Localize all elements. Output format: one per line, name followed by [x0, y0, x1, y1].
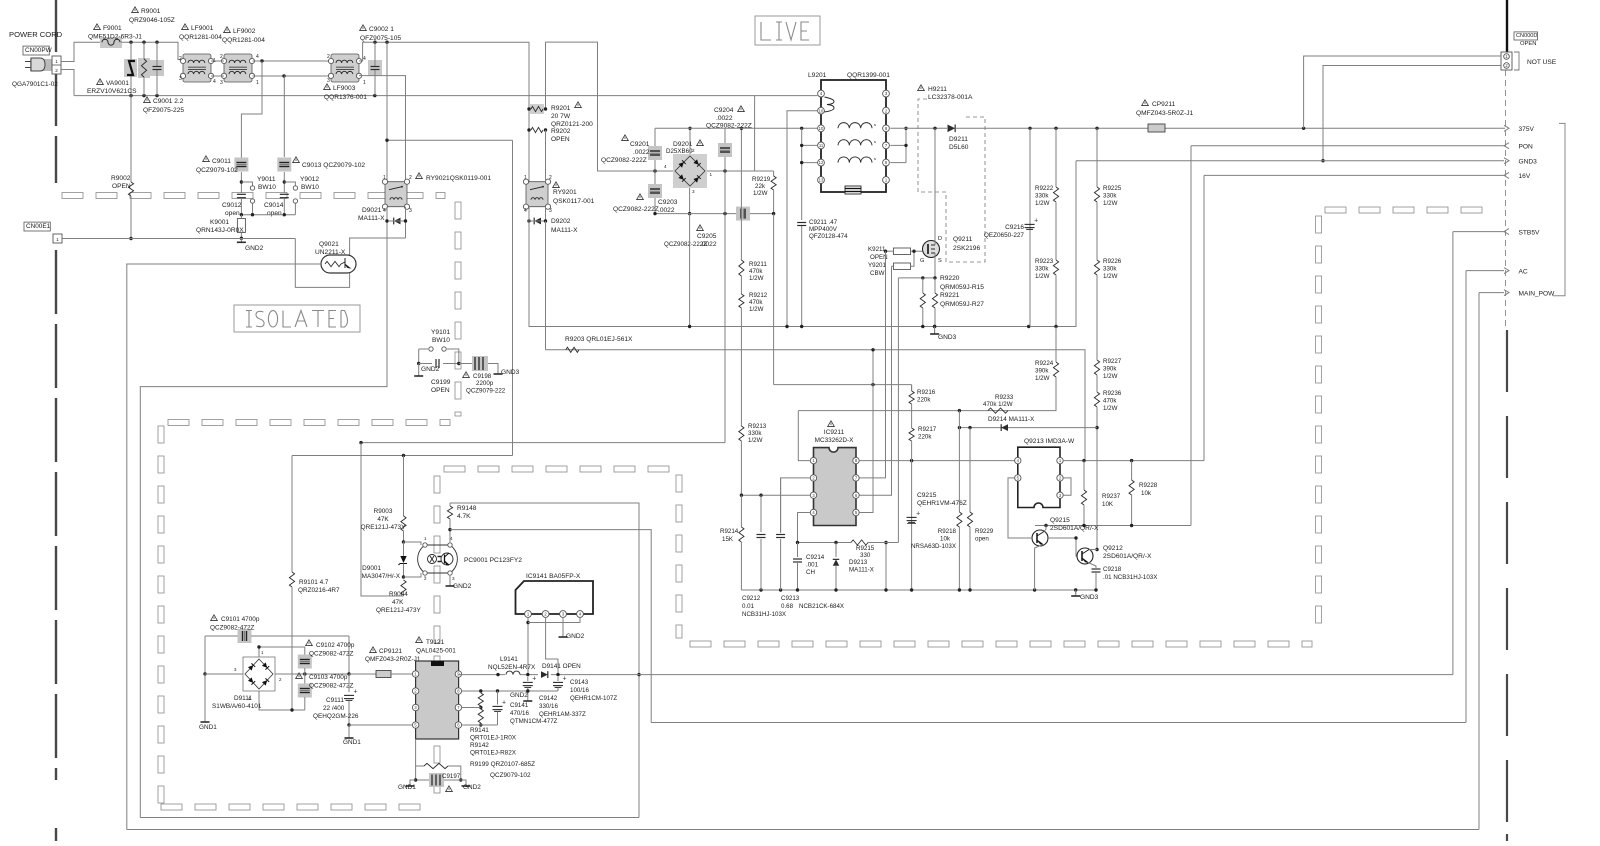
- fuse F9001: [100, 37, 122, 48]
- capacitor C9205: [736, 207, 750, 221]
- svg-text:2: 2: [55, 68, 58, 73]
- svg-text:C9213: C9213: [781, 595, 800, 602]
- wire LF9003 pin1 to RY9021 pin2: [359, 76, 406, 182]
- wire bridge pin3 down: [689, 188, 691, 214]
- svg-text:1: 1: [524, 175, 527, 181]
- relay RY9201: [526, 182, 548, 207]
- wire sense line y443: [724, 171, 726, 443]
- svg-text:C9014: C9014: [264, 202, 284, 209]
- wire branch y141 to x512: [387, 139, 513, 141]
- wire 16V vertical: [1203, 175, 1205, 460]
- svg-text:D9141 OPEN: D9141 OPEN: [542, 663, 581, 670]
- zener D9001: [400, 556, 406, 563]
- svg-text:4: 4: [664, 164, 667, 169]
- svg-text:R9212: R9212: [749, 292, 768, 299]
- svg-text:+: +: [532, 676, 536, 683]
- svg-text:D9202: D9202: [551, 218, 571, 225]
- wire pin8 line: [462, 690, 558, 692]
- wire pin7 stub: [462, 707, 481, 709]
- svg-text:1: 1: [710, 172, 713, 177]
- svg-text:0.68: 0.68: [781, 603, 794, 610]
- capacitor C9141: [493, 705, 503, 707]
- svg-text:open: open: [267, 210, 282, 217]
- line filter LF9003: [331, 54, 359, 82]
- svg-text:R9229: R9229: [975, 528, 994, 535]
- ground GND2 opto: [449, 576, 451, 582]
- svg-text:D5L60: D5L60: [949, 144, 969, 151]
- svg-text:OPEN: OPEN: [112, 183, 131, 190]
- output MAIN_POW: [1504, 290, 1509, 296]
- svg-text:Y9101: Y9101: [431, 329, 450, 336]
- svg-text:1: 1: [363, 80, 366, 86]
- svg-text:C9215: C9215: [917, 492, 937, 499]
- svg-text:BW10: BW10: [432, 337, 450, 344]
- wire C9205 line: [655, 213, 774, 215]
- svg-text:QRM059J-R27: QRM059J-R27: [940, 301, 984, 308]
- svg-text:QQR1281-004: QQR1281-004: [179, 34, 222, 41]
- svg-text:1/2W: 1/2W: [748, 437, 763, 444]
- wire bottom neutral rail: [74, 95, 818, 97]
- svg-text:Q9021: Q9021: [319, 241, 339, 248]
- capacitor C9199 OPEN: [418, 349, 420, 364]
- svg-text:QFZ9075-225: QFZ9075-225: [143, 107, 184, 114]
- svg-text:RY9201: RY9201: [553, 189, 577, 196]
- svg-text:C9103 4700p: C9103 4700p: [309, 674, 348, 681]
- dashed boundary horizontal y210: [1325, 207, 1346, 213]
- svg-text:L9201: L9201: [808, 72, 827, 79]
- wire K9211 to IC pin7: [859, 251, 885, 478]
- wire IC pin8 rail to Q9213: [859, 460, 1014, 462]
- svg-text:C9204: C9204: [714, 107, 734, 114]
- svg-text:OPEN: OPEN: [551, 136, 570, 143]
- svg-text:+: +: [563, 676, 567, 683]
- wire to C9013 chain: [283, 76, 285, 157]
- svg-text:R9213: R9213: [748, 423, 767, 430]
- IC IC9141: [516, 581, 594, 614]
- resistor R9141: [478, 693, 483, 706]
- ground GND1 bottom: [410, 780, 416, 782]
- svg-text:T9121: T9121: [426, 639, 445, 646]
- wire bridge D9111 left: [205, 673, 243, 675]
- svg-text:C9141: C9141: [510, 702, 529, 709]
- svg-text:C9011: C9011: [212, 158, 231, 165]
- capacitor C9011: [234, 158, 248, 172]
- resistor R9199: [416, 739, 424, 766]
- svg-text:1: 1: [424, 536, 427, 541]
- svg-text:R9222: R9222: [1035, 185, 1054, 192]
- svg-text:.0022: .0022: [633, 149, 650, 156]
- wire CN000D pin1 from 375V rail: [1304, 56, 1501, 128]
- svg-text:1/2W: 1/2W: [749, 275, 764, 282]
- wire C9101 right down: [348, 636, 350, 674]
- wire L9201 inputs: [655, 127, 818, 129]
- capacitor C9142: [527, 677, 529, 681]
- svg-text:C9214: C9214: [806, 554, 825, 561]
- svg-text:QFZ0128-474: QFZ0128-474: [809, 233, 848, 240]
- wire Q9213 pin2-pin3 jog: [1063, 478, 1071, 495]
- ground GND3 secondary: [1075, 590, 1077, 594]
- svg-text:22 /400: 22 /400: [323, 705, 345, 712]
- jumper K9211 OPEN: [894, 248, 911, 255]
- left isolation dashed bar: [55, 0, 57, 52]
- resistor R9236: [1096, 375, 1098, 392]
- svg-text:NQL52EN-4R7X: NQL52EN-4R7X: [488, 664, 536, 671]
- svg-text:Q9215: Q9215: [1050, 517, 1070, 524]
- svg-text:CH: CH: [806, 569, 815, 576]
- svg-text:R9202: R9202: [551, 128, 571, 135]
- capacitor C9203: [654, 171, 656, 186]
- wire branch to RY9021 pin1: [386, 42, 388, 182]
- svg-text:QGA7901C1-02: QGA7901C1-02: [12, 81, 58, 88]
- svg-text:R9224: R9224: [1035, 360, 1054, 367]
- svg-text:0.01: 0.01: [742, 603, 755, 610]
- svg-text:LC32378-001A: LC32378-001A: [928, 94, 973, 101]
- resistor R9101: [291, 456, 293, 573]
- svg-text:QAL0425-001: QAL0425-001: [416, 648, 456, 655]
- wire Q9215 connections: [1008, 478, 1032, 538]
- svg-text:R9226: R9226: [1103, 258, 1122, 265]
- svg-text:4: 4: [363, 56, 366, 62]
- diode D9213: [835, 543, 837, 558]
- capacitor C9213: [780, 478, 782, 532]
- wire source sense to R9215 rail: [897, 278, 899, 543]
- wire STB5V route: [1452, 232, 1454, 675]
- wire CN00E1 line: [62, 238, 295, 240]
- svg-text:1/2W: 1/2W: [1103, 200, 1118, 207]
- svg-text:s: s: [874, 156, 876, 161]
- capacitor C9197: [416, 766, 430, 780]
- svg-text:10k: 10k: [1141, 490, 1152, 497]
- svg-text:3: 3: [220, 80, 223, 86]
- spark gap Y9012: [284, 182, 295, 186]
- capacitor C9101: [205, 635, 238, 637]
- wire IC9141 pin1 down: [527, 617, 529, 674]
- svg-text:2: 2: [409, 175, 412, 181]
- dashed boundary vertical x161: [158, 426, 164, 443]
- svg-text:GND2: GND2: [510, 692, 528, 699]
- svg-text:2SD601A/QR/-X: 2SD601A/QR/-X: [1103, 553, 1152, 560]
- svg-text:Y9012: Y9012: [300, 176, 319, 183]
- svg-text:R9141: R9141: [470, 727, 489, 734]
- wire opto pin2 gnd: [424, 576, 426, 577]
- svg-text:S1WB/A/60-4101: S1WB/A/60-4101: [212, 703, 262, 710]
- wire GND3 rail: [529, 161, 1076, 327]
- wire R9004 bottom: [361, 595, 404, 597]
- svg-text:OPEN: OPEN: [870, 254, 888, 261]
- ground GND1 under C9111: [348, 725, 350, 734]
- svg-text:470k: 470k: [1103, 398, 1117, 405]
- resistor R9216: [911, 385, 913, 391]
- svg-text:NOT USE: NOT USE: [1527, 59, 1557, 66]
- svg-text:2: 2: [549, 175, 552, 181]
- wire sense line y456: [292, 455, 513, 457]
- capacitor C9111: [348, 674, 350, 692]
- svg-text:D9001: D9001: [362, 565, 381, 572]
- svg-text:BW10: BW10: [301, 184, 319, 191]
- svg-text:4: 4: [383, 208, 386, 214]
- capacitor C9212: [760, 495, 762, 532]
- resistor R9225: [1096, 128, 1098, 187]
- svg-text:D9214 MA111-X: D9214 MA111-X: [988, 416, 1035, 423]
- resistor R9003: [403, 456, 405, 517]
- bridge rectifier D9111: [243, 657, 275, 691]
- svg-text:LF9002: LF9002: [233, 28, 256, 35]
- wire IC9141 pin4 jog: [528, 617, 580, 622]
- output GND3: [1076, 160, 1504, 162]
- resistor R9203: [566, 347, 579, 352]
- svg-text:QMFZ043-2R0Z-J1: QMFZ043-2R0Z-J1: [365, 656, 421, 663]
- svg-text:1/2W: 1/2W: [753, 190, 768, 197]
- IC Q9213: [1018, 447, 1060, 507]
- wire IC pin1: [798, 411, 810, 461]
- wire IC supply from PON line: [859, 350, 873, 513]
- resistor R9222: [1055, 128, 1057, 187]
- wire Q9021 loop: [295, 239, 349, 288]
- wire R9219 chain down to sense line: [773, 214, 775, 385]
- resistor R9228: [1131, 461, 1133, 480]
- svg-text:QEZ0650-227: QEZ0650-227: [984, 232, 1025, 239]
- svg-text:GND1: GND1: [398, 784, 416, 791]
- capacitor C9143: [557, 677, 559, 681]
- wire Y9201 to IC pin6: [859, 266, 891, 495]
- line filter LF9002: [224, 54, 252, 82]
- capacitor C9215: [911, 461, 913, 590]
- svg-text:QFZ9075-105: QFZ9075-105: [360, 35, 401, 42]
- svg-text:13: 13: [819, 178, 824, 183]
- wire bridge pin1 out: [707, 170, 774, 172]
- fuse CP9121: [349, 673, 376, 675]
- svg-text:4: 4: [524, 208, 527, 214]
- resistor R9142: [478, 709, 483, 723]
- svg-text:4: 4: [213, 79, 216, 85]
- wire IC9141 pin2 route: [546, 617, 558, 674]
- capacitor C9216: [1025, 223, 1035, 225]
- resistor R9223: [1055, 202, 1057, 260]
- svg-text:QRZ9046-105Z: QRZ9046-105Z: [129, 17, 175, 24]
- svg-text:QSK0117-001: QSK0117-001: [553, 198, 595, 205]
- relay RY9021: [385, 182, 407, 207]
- wire top rail to LF9001: [121, 42, 183, 59]
- svg-text:220k: 220k: [918, 434, 932, 441]
- svg-text:C9102 4700p: C9102 4700p: [316, 642, 355, 649]
- svg-text:MPP400V: MPP400V: [809, 226, 838, 233]
- svg-text:BW10: BW10: [258, 184, 276, 191]
- svg-text:R9216: R9216: [917, 389, 936, 396]
- resistor R9002: [130, 96, 132, 182]
- svg-text:PC9001 PC123FY2: PC9001 PC123FY2: [464, 557, 522, 564]
- wire LF9003 pin4 to top line: [359, 42, 529, 182]
- svg-text:+: +: [502, 700, 506, 707]
- svg-text:MA3047/H/-X: MA3047/H/-X: [362, 573, 401, 580]
- svg-text:QCZ9082-222Z: QCZ9082-222Z: [613, 206, 659, 213]
- svg-text:470k 1/2W: 470k 1/2W: [983, 401, 1013, 408]
- ground GND3 main: [933, 325, 936, 328]
- svg-text:QQR1376-001: QQR1376-001: [324, 94, 367, 101]
- svg-text:R9233: R9233: [995, 394, 1014, 401]
- svg-text:QRN143J-0R0X: QRN143J-0R0X: [196, 227, 244, 234]
- svg-text:UN2211-X: UN2211-X: [315, 249, 346, 256]
- svg-text:QCZ9082-472Z: QCZ9082-472Z: [309, 683, 353, 690]
- wire RY9201 coil to PON line: [545, 221, 547, 350]
- bridge rectifier D9201: [673, 154, 707, 188]
- svg-text:3: 3: [549, 208, 552, 214]
- diode D9214: [1001, 424, 1008, 431]
- svg-text:C9101 4700p: C9101 4700p: [221, 616, 260, 623]
- resistor R9229 open: [969, 428, 971, 512]
- resistor R9202 OPEN: [531, 127, 543, 132]
- resistor R9001: [138, 58, 150, 78]
- svg-text:4.7K: 4.7K: [457, 513, 471, 520]
- svg-text:20 7W: 20 7W: [551, 113, 571, 120]
- svg-text:C9216: C9216: [1005, 224, 1024, 231]
- resistor R9237: [1083, 461, 1085, 490]
- wire R9224 bottom to R9233 line: [959, 377, 1056, 411]
- transistor Q9215: [1032, 530, 1048, 546]
- svg-text:NCB21CK-684X: NCB21CK-684X: [799, 603, 844, 610]
- svg-text:1/2W: 1/2W: [1103, 373, 1118, 380]
- capacitor C9198: [459, 363, 472, 365]
- right isolation dashed bar: [1506, 330, 1508, 392]
- svg-text:220k: 220k: [917, 397, 931, 404]
- svg-text:C9197: C9197: [442, 773, 461, 780]
- diode D9141 OPEN: [538, 670, 551, 679]
- svg-text:GND2: GND2: [566, 633, 585, 640]
- resistor chain R9211 R9212: [740, 128, 742, 260]
- svg-text:C9143: C9143: [570, 679, 589, 686]
- svg-text:QCZ9079-102: QCZ9079-102: [196, 167, 238, 174]
- svg-text:C9205: C9205: [697, 233, 717, 240]
- svg-text:POWER CORD: POWER CORD: [9, 30, 63, 39]
- svg-text:QCZ9082-222Z: QCZ9082-222Z: [601, 157, 647, 164]
- resistor R9214: [740, 495, 742, 527]
- resistor R9148: [449, 503, 451, 506]
- dashed boundary vertical x458: [455, 202, 461, 219]
- svg-text:R9217: R9217: [918, 426, 937, 433]
- svg-text:C9211 .47: C9211 .47: [809, 219, 838, 226]
- wire x886 to bottom rail: [885, 543, 887, 591]
- svg-text:GND2: GND2: [421, 366, 440, 373]
- svg-text:MAIN_POW: MAIN_POW: [1519, 291, 1556, 298]
- spark gap Y9011: [241, 182, 252, 186]
- ground GND1 left: [204, 718, 206, 722]
- svg-text:R9218: R9218: [938, 528, 957, 535]
- svg-text:Q9212: Q9212: [1103, 545, 1123, 552]
- svg-text:R9199 QRZ0107-685Z: R9199 QRZ0107-685Z: [470, 761, 535, 768]
- svg-text:330k: 330k: [1103, 193, 1117, 200]
- svg-text:C9142: C9142: [539, 695, 558, 702]
- svg-text:open: open: [975, 536, 989, 543]
- wire IC pin3 line: [741, 494, 810, 496]
- svg-text:11: 11: [819, 143, 824, 148]
- svg-text:VA9001: VA9001: [106, 80, 129, 87]
- wire STB5V rail: [458, 674, 1453, 676]
- svg-text:S: S: [938, 258, 942, 264]
- svg-text:330k: 330k: [1035, 266, 1049, 273]
- svg-text:R9214: R9214: [720, 528, 739, 535]
- svg-text:MC33262D-X: MC33262D-X: [815, 437, 854, 444]
- svg-text:CP9121: CP9121: [379, 648, 403, 655]
- jumper Y9201 CBW: [894, 263, 911, 270]
- connector CN00E1: [24, 222, 50, 231]
- svg-text:R9220: R9220: [940, 275, 960, 282]
- svg-text:G: G: [920, 258, 924, 264]
- core mark: [845, 186, 861, 194]
- wire MAIN_POW route: [1478, 293, 1480, 830]
- thermal protector Q9021: [321, 255, 356, 273]
- svg-text:GND2: GND2: [245, 245, 264, 252]
- svg-text:IC9141 BA05FP-X: IC9141 BA05FP-X: [526, 573, 581, 580]
- fuse CP9211: [1148, 124, 1165, 132]
- output 375V: [1504, 125, 1509, 131]
- ground GND2 under C9142: [527, 691, 529, 697]
- wire Q9211 source: [934, 258, 936, 278]
- svg-text:D9213: D9213: [849, 559, 868, 566]
- svg-text:C9212: C9212: [742, 595, 761, 602]
- wire left sense vertical: [361, 443, 404, 596]
- svg-text:K9001: K9001: [210, 219, 229, 226]
- dashed boundary vertical x679: [676, 475, 682, 492]
- spark gap Y9101: [419, 348, 428, 350]
- wire Q9212 collector: [1089, 549, 1097, 551]
- svg-text:CP9211: CP9211: [1152, 101, 1176, 108]
- svg-text:R9148: R9148: [457, 505, 477, 512]
- wire PON vertical: [1190, 146, 1192, 526]
- wire rail after D9211: [956, 127, 1505, 129]
- wire to C9011 chain: [241, 61, 262, 157]
- svg-text:D9021: D9021: [362, 207, 382, 214]
- svg-text:QEHR1AM-337Z: QEHR1AM-337Z: [539, 711, 586, 718]
- svg-text:2: 2: [327, 54, 330, 60]
- wire bridge D9111 top: [259, 647, 305, 657]
- svg-text:R9201: R9201: [551, 105, 571, 112]
- connector CN000D: [1506, 0, 1508, 52]
- wire x1030 vertical: [1029, 128, 1031, 326]
- svg-text:QEHR1CM-107Z: QEHR1CM-107Z: [570, 695, 617, 702]
- svg-text:QCZ9079-102: QCZ9079-102: [490, 772, 531, 779]
- wire pin6 line: [462, 724, 498, 726]
- dashed boundary bottom y807: [161, 804, 182, 810]
- svg-text:3: 3: [452, 576, 455, 581]
- optocoupler PC9001: [425, 545, 450, 573]
- svg-text:STB5V: STB5V: [1519, 230, 1540, 237]
- resistor R9004: [401, 580, 406, 595]
- svg-text:470k: 470k: [749, 299, 763, 306]
- output AC: [1504, 268, 1509, 274]
- wire C9013 to C9014: [283, 172, 285, 193]
- svg-text:R9236: R9236: [1103, 390, 1122, 397]
- inductor L9141: [505, 671, 520, 678]
- dashed boundary horizontal y469: [444, 466, 465, 472]
- svg-text:GND3: GND3: [1519, 159, 1538, 166]
- svg-text:R9228: R9228: [1139, 482, 1158, 489]
- svg-text:330: 330: [860, 552, 871, 559]
- svg-text:47K: 47K: [392, 599, 404, 606]
- svg-text:QCZ9082-222Z: QCZ9082-222Z: [664, 241, 707, 248]
- ground GND2 bottom: [461, 780, 466, 782]
- svg-text:QCZ9082-472Z: QCZ9082-472Z: [309, 651, 353, 658]
- svg-text:R9142: R9142: [470, 742, 489, 749]
- svg-text:C9199: C9199: [431, 379, 451, 386]
- svg-text:2SK2196: 2SK2196: [953, 245, 980, 252]
- wire C9101 left down to GND1: [204, 636, 206, 674]
- svg-text:MA111-X: MA111-X: [849, 567, 874, 574]
- svg-text:PON: PON: [1519, 144, 1534, 151]
- svg-text:R9223: R9223: [1035, 258, 1054, 265]
- svg-text:1/2W: 1/2W: [1035, 273, 1050, 280]
- svg-text:2SD601A/QR/-X: 2SD601A/QR/-X: [1050, 525, 1099, 532]
- wire bridge D9111 bottom: [259, 691, 305, 710]
- wire R9148 top STB5V line: [450, 503, 639, 818]
